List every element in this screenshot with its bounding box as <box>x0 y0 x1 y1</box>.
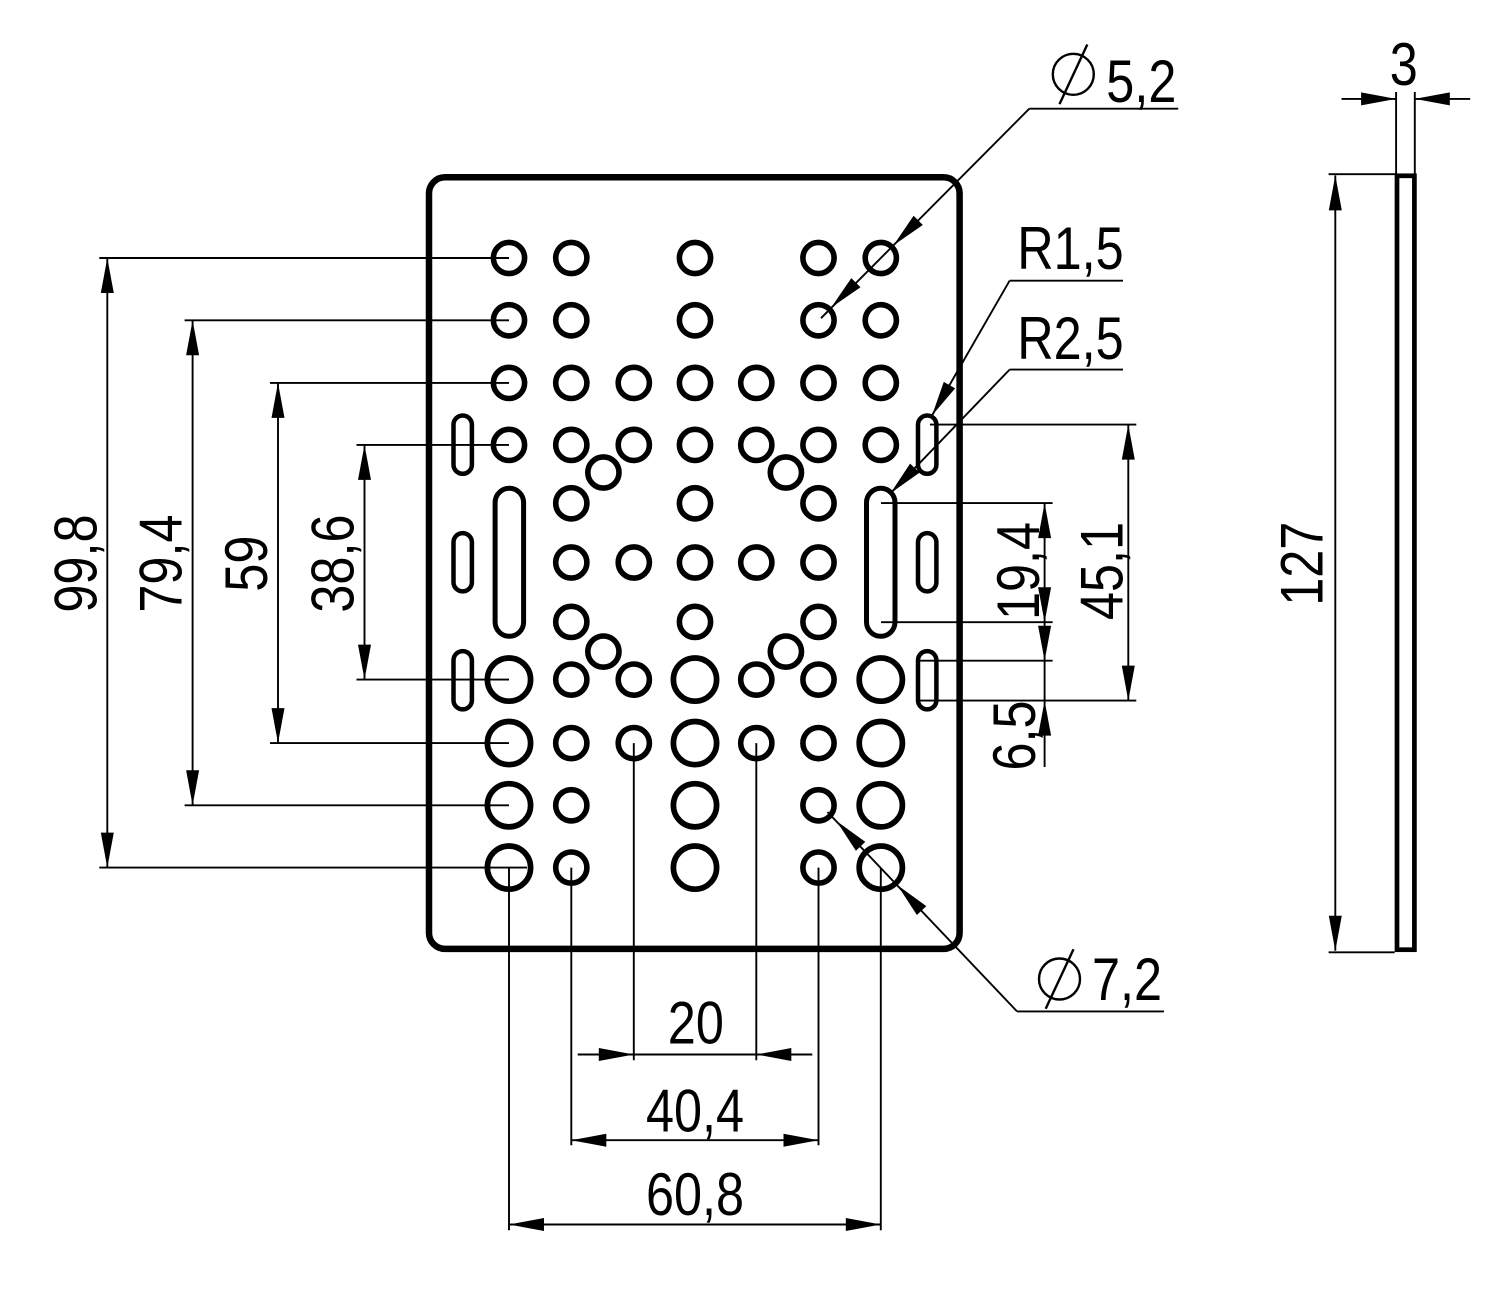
svg-text:59: 59 <box>213 536 280 592</box>
svg-text:40,4: 40,4 <box>646 1078 744 1145</box>
svg-text:38,6: 38,6 <box>299 515 366 613</box>
svg-text:20: 20 <box>668 989 724 1056</box>
svg-text:5,2: 5,2 <box>1106 48 1176 115</box>
svg-text:45,1: 45,1 <box>1068 522 1135 620</box>
svg-text:99,8: 99,8 <box>42 515 109 613</box>
svg-text:19,4: 19,4 <box>985 522 1052 620</box>
svg-text:127: 127 <box>1268 522 1335 606</box>
svg-text:7,2: 7,2 <box>1092 946 1162 1013</box>
svg-text:60,8: 60,8 <box>646 1161 744 1228</box>
svg-text:6,5: 6,5 <box>981 700 1048 770</box>
svg-text:R1,5: R1,5 <box>1017 215 1123 282</box>
svg-text:79,4: 79,4 <box>128 515 195 613</box>
svg-text:3: 3 <box>1390 31 1418 98</box>
svg-text:R2,5: R2,5 <box>1017 305 1123 372</box>
